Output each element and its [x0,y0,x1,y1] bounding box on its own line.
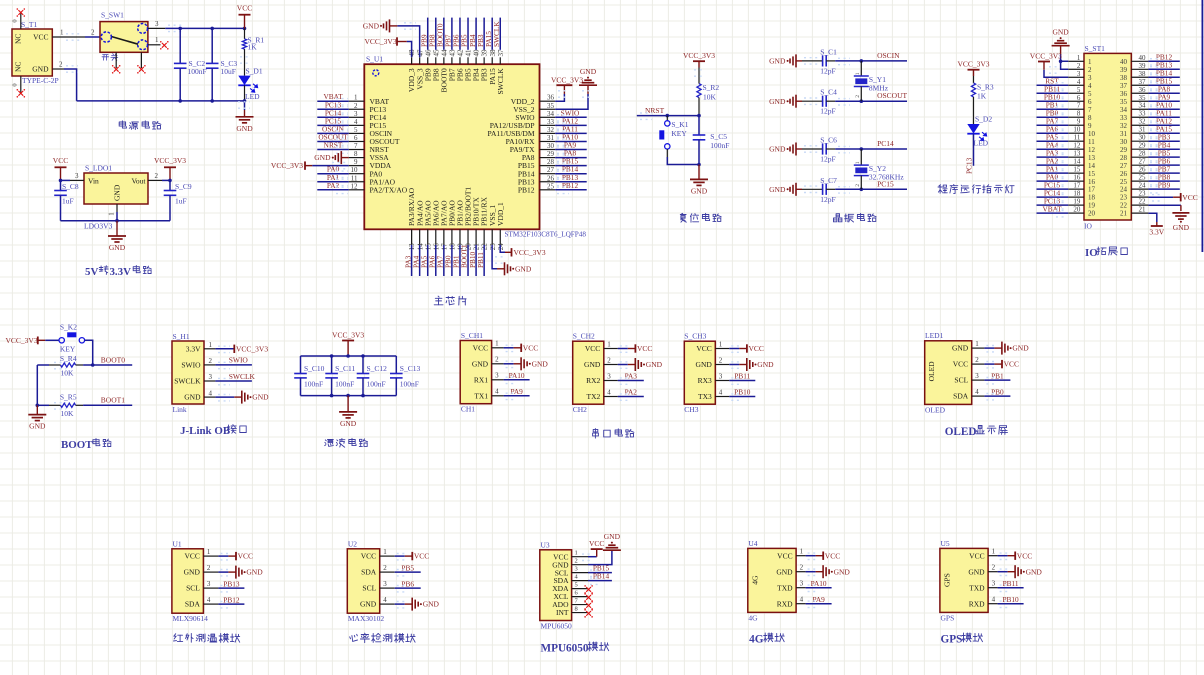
svg-text:PB5: PB5 [401,563,414,572]
pin 13 of S_ST1 (left) [1068,150,1095,162]
pin 25 PB12 of U1 [518,182,555,194]
junction at C2 bottom [178,99,182,103]
pin 2 GND of U4 [776,564,805,577]
svg-text:OLED: OLED [927,361,936,382]
svg-text:13: 13 [1088,154,1096,162]
power flag VCC at S_CH3 pin 1 [729,344,764,353]
svg-text:SWIO: SWIO [181,361,201,370]
pin 7 of S_ST1 (left) [1068,102,1092,114]
svg-text:GND: GND [184,393,201,402]
net label PB0 at LED1 pin 4 [984,387,1010,400]
pin 2 PC13 of U1 [349,102,387,114]
bottom rail wire of power circuit [77,100,245,102]
header S_ST1 IO expansion [1084,44,1131,231]
resistor S_R1 1K [240,28,264,75]
net label PB6 at U1 pin 42 [452,18,461,50]
pin 1 VCC of S_CH3 [696,340,729,353]
capacitor S_C12 100nF [357,356,387,396]
svg-text:LED: LED [245,92,260,101]
pin 2 GND of S_CH3 [696,356,730,369]
svg-text:4: 4 [209,389,213,397]
pin 1 VCC of U1 [184,548,218,561]
junction bottom of S_C12 [361,394,365,398]
pin 10 PA0 of U1 [349,166,383,178]
svg-text:VCC: VCC [237,4,252,13]
net label PC14 at S_ST1 pin 18 [1037,188,1069,201]
net label PA10 at U4 pin 3 [806,579,832,592]
svg-text:31: 31 [1120,130,1128,138]
net label PB14 at U3 pin 4 [588,572,612,585]
svg-text:MPU6050: MPU6050 [541,643,589,655]
net label PB6 at S_ST1 pin 27 [1148,156,1179,169]
pin 31 PA10/RX of U1 [506,134,556,146]
svg-text:S_K2: S_K2 [60,323,77,332]
svg-text:VCC_3V3: VCC_3V3 [683,51,715,60]
svg-text:GND: GND [360,600,377,609]
svg-text:VCC_3V3: VCC_3V3 [514,248,546,257]
svg-text:2: 2 [855,184,861,187]
svg-text:PB12: PB12 [518,185,535,194]
pin 34 of S_ST1 (right) [1120,102,1148,114]
svg-text:4: 4 [354,118,358,126]
svg-text:36: 36 [1120,90,1128,98]
svg-text:4G: 4G [750,575,759,585]
pin 25 of S_ST1 (right) [1120,174,1148,186]
pin 9 VDDA of U1 [349,158,392,170]
net label OSCOUT at U1 pin 6 [317,132,349,145]
pin 3 of S_SW1 [148,20,165,29]
capacitor S_C4 12pF with GND and net OSCOUT [769,88,907,116]
ground GND of power circuit [236,101,254,133]
pin 4 RXD of U5 [969,596,998,609]
pin 11 of S_ST1 (left) [1068,134,1095,146]
net label PA3 at S_CH2 pin 3 [618,372,644,385]
pin 10 of S_ST1 (left) [1068,126,1095,138]
net label PB10 at U1 pin 21 [468,245,477,276]
svg-text:SCL: SCL [954,376,968,385]
pin 0 top of S_T1 (no connect) [12,8,26,29]
pin 1 VCC of U3 [553,550,588,562]
net label PB9 at U1 pin 46 [419,18,428,50]
net label BOOT0 at U1 pin 44 [436,18,445,50]
net label PA3 at U1 pin 13 [403,245,412,276]
pin 4 TX3 of S_CH3 [698,388,729,401]
svg-text:11: 11 [1088,138,1095,146]
net label PC14 at U1 pin 3 [317,108,349,121]
svg-text:38: 38 [1139,70,1147,78]
caption 主芯片 [434,296,466,305]
resistor S_R3 1K [971,76,994,124]
module U3 MPU6050 body [540,540,572,630]
net label SWCLK at U1 pin 37 [492,18,501,50]
pin 24 of S_ST1 (right) [1120,182,1148,194]
push button S_K1 KEY [659,116,688,157]
svg-text:S_D2: S_D2 [975,115,992,124]
svg-text:22: 22 [1120,202,1128,210]
net label PA0 at S_ST1 pin 16 [1037,172,1069,185]
capacitor S_C11 100nF [325,356,355,396]
svg-text:2: 2 [155,172,159,180]
junction OSCIN at crystal [860,59,864,63]
net label PA4 at S_ST1 pin 12 [1037,140,1069,153]
net label PB5 at S_ST1 pin 28 [1148,148,1179,161]
pin 30 PA9/TX of U1 [510,142,555,154]
pin 4 TX2 of S_CH2 [587,388,618,401]
svg-text:2: 2 [800,564,804,572]
svg-text:VCC: VCC [361,552,376,561]
capacitor S_C13 100nF [390,356,420,396]
caption 电源电路 [119,121,161,130]
LED S_D1 [238,67,263,102]
pin 4 of S_H1 [204,389,215,397]
pin 47 VSS_3 of U1 (top) [415,49,424,90]
junction NRST at key [666,114,670,118]
svg-text:7: 7 [354,142,358,150]
net label PB1 at LED1 pin 3 [984,371,1010,384]
svg-text:1: 1 [575,550,578,557]
svg-text:10K: 10K [61,409,75,418]
svg-text:5: 5 [1088,90,1092,98]
svg-text:4: 4 [607,388,611,396]
svg-text:10K: 10K [61,369,75,378]
net label PA6 at U1 pin 16 [427,245,436,276]
junction at VCC/R1 [243,27,247,31]
svg-text:3: 3 [155,20,159,28]
pin 44 BOOT0 of U1 (top) [439,49,448,92]
svg-text:25: 25 [547,182,555,190]
pin 22 of S_ST1 (right) [1120,198,1148,210]
module U1 body [172,540,208,624]
ground GND of filter [339,396,357,428]
net label PB13 at U1 pin 26 [555,173,587,186]
power flag VCC at U3 pin 1 [582,539,604,561]
svg-text:23: 23 [1139,190,1147,198]
svg-text:SCL: SCL [186,584,200,593]
svg-text:37: 37 [1120,82,1128,90]
wire sheet edge right [1201,0,1203,252]
no-connect at U3 pin 7 [584,601,593,610]
pin 26 of S_ST1 (right) [1120,166,1148,178]
svg-text:2: 2 [1088,66,1092,74]
pin 33 of S_ST1 (right) [1120,110,1148,122]
svg-text:31: 31 [547,134,555,142]
svg-text:45: 45 [432,49,440,57]
svg-text:CH2: CH2 [573,405,587,414]
svg-text:1: 1 [975,340,979,348]
svg-text:TXD: TXD [969,583,985,592]
svg-text:SWCLK: SWCLK [229,372,256,381]
svg-text:GND: GND [472,359,489,368]
caption 心率检测模块 [350,633,415,643]
svg-text:4: 4 [495,388,499,396]
svg-text:S_CH1: S_CH1 [461,331,483,340]
svg-text:VCC: VCC [585,344,600,353]
svg-text:0: 0 [12,83,19,86]
capacitor S_C3 10uF [206,28,238,101]
svg-text:8: 8 [575,606,578,613]
svg-text:U1: U1 [173,540,182,549]
net label SWIO at S_H1 pin 2 [215,356,252,369]
pin 5 of S_ST1 (left) [1068,86,1092,98]
svg-text:VCC: VCC [777,551,792,560]
svg-text:2: 2 [607,356,611,364]
svg-text:S_C12: S_C12 [367,364,388,373]
svg-text:VCC: VCC [1017,551,1032,560]
capacitor S_C6 12pF with GND and net PC14 [769,136,907,164]
pin 37 SWCLK of U1 (top) [496,49,505,95]
pin 2 VCC of LED1 [953,356,985,369]
svg-text:2: 2 [383,564,387,572]
ground GND at U4 pin 2 [806,565,851,578]
svg-text:GPS: GPS [942,573,951,587]
svg-text:4: 4 [1077,78,1081,86]
pin 15 of S_ST1 (left) [1068,166,1095,178]
svg-text:U5: U5 [941,539,950,548]
svg-text:33: 33 [1139,110,1147,118]
net label BOOT1 at U1 pin 20 [460,244,469,276]
svg-text:3: 3 [800,580,804,588]
svg-text:39: 39 [1120,66,1128,74]
svg-text:12: 12 [351,182,359,190]
net label PB14 at U1 pin 27 [555,165,587,178]
power flag VCC_3V3 at U1 pin 48 VDD_3 [365,37,412,57]
svg-text:OSCOUT: OSCOUT [877,91,907,100]
svg-text:34: 34 [1120,106,1128,114]
svg-text:15: 15 [1088,170,1096,178]
svg-text:12: 12 [1088,146,1096,154]
svg-text:4: 4 [1088,82,1092,90]
svg-text:PB14: PB14 [593,572,610,581]
svg-text:GND: GND [515,264,532,273]
svg-text:3: 3 [209,373,213,381]
ground GND at U1 pin 23 VSS_1 [492,245,532,275]
svg-text:NC: NC [14,62,23,72]
svg-text:1: 1 [800,548,804,556]
svg-text:8MHz: 8MHz [869,84,889,93]
pin 18 PB0/AO of U1 (bottom) [448,200,457,251]
svg-text:PA9: PA9 [812,595,825,604]
svg-text:LDO3V3: LDO3V3 [84,222,113,231]
svg-text:5: 5 [354,126,358,134]
net label BOOT0 [54,355,132,369]
net label PA2 at S_CH2 pin 4 [618,388,644,401]
svg-text:3.3V: 3.3V [186,344,201,353]
pin 29 of S_ST1 (right) [1120,142,1148,154]
caption MPU6050模块 [541,642,609,655]
svg-text:38: 38 [489,49,497,57]
pin 18 of S_ST1 (left) [1068,190,1095,202]
svg-text:PB11: PB11 [1003,579,1019,588]
pin 22 PB11/RX of U1 (bottom) [480,197,489,251]
svg-text:28: 28 [547,158,555,166]
svg-text:GND: GND [580,67,597,76]
svg-text:PA10: PA10 [509,371,525,380]
svg-text:MAX30102: MAX30102 [348,614,385,623]
svg-text:32.768KHz: 32.768KHz [869,173,904,182]
pin 32 PA11/USB/DM of U1 [488,126,556,138]
svg-text:17: 17 [1088,186,1096,194]
svg-text:14: 14 [1073,158,1081,166]
svg-text:VCC_3V3: VCC_3V3 [154,156,186,165]
module S_CH2 body [573,332,604,414]
svg-text:VCC: VCC [473,343,488,352]
svg-text:25: 25 [1139,174,1147,182]
crystal S_Y2 32.768KHz [854,149,905,189]
capacitor S_C5 100nF [693,116,730,165]
net label PC15 at S_ST1 pin 17 [1037,180,1069,193]
pin 43 PB7 of U1 (top) [448,49,457,81]
pin 35 VSS_2 of U1 [513,102,555,114]
wire LDO ground rail [61,220,171,222]
net label PA5 at U1 pin 15 [419,245,428,276]
svg-text:Vout: Vout [131,176,146,185]
svg-text:GND: GND [32,65,49,74]
ground GND at U1 pin 35 [555,67,597,109]
svg-text:NRST: NRST [324,141,343,150]
bottom stubs of S_SW1 (no connect) [112,52,146,73]
svg-text:100nF: 100nF [304,380,323,389]
svg-text:9: 9 [1088,122,1092,130]
caption BOOT电路 [61,439,111,452]
svg-text:17: 17 [1073,182,1081,190]
svg-text:VCC: VCC [953,360,968,369]
pin 1 VCC of S_CH1 [473,340,504,353]
svg-text:VCC: VCC [969,551,984,560]
svg-text:12pF: 12pF [820,195,835,204]
svg-text:VCC: VCC [637,344,652,353]
wire key bottom to ground rail [667,157,699,165]
pin 1 VBAT of U1 [349,94,390,106]
svg-text:SDA: SDA [185,600,201,609]
pin 17 PA7/AO of U1 (bottom) [439,200,448,250]
svg-text:32: 32 [1120,122,1128,130]
pin 4 SDA of LED1 [953,388,984,401]
svg-text:30: 30 [1139,134,1147,142]
svg-text:VCC: VCC [589,539,604,548]
wire VCC rail from switch pin3 [165,25,244,31]
svg-text:28: 28 [1120,154,1128,162]
junction BOOT0 [91,363,95,367]
caption J-Link OB接口 [180,425,246,438]
svg-text:GPS: GPS [941,613,955,622]
svg-text:2: 2 [91,29,95,37]
svg-text:5V: 5V [85,266,98,278]
net label PB11 at S_ST1 pin 5 [1037,84,1069,97]
pin 4 PC15 of U1 [349,118,387,130]
svg-text:32: 32 [1139,118,1147,126]
svg-text:26: 26 [547,174,555,182]
svg-text:GND: GND [340,419,357,428]
svg-text:3: 3 [207,580,211,588]
svg-text:PB1: PB1 [991,371,1004,380]
caption GPS模块 [941,633,983,646]
net label SWIO at U1 pin 34 [555,108,587,121]
svg-text:SDA: SDA [361,568,377,577]
svg-text:3: 3 [1088,74,1092,82]
net label PA9 at S_ST1 pin 35 [1148,92,1179,105]
pin 3 TXD of U5 [969,580,997,593]
svg-text:SWCLK: SWCLK [496,68,505,95]
svg-text:35: 35 [1120,98,1128,106]
svg-text:4G: 4G [749,634,764,646]
svg-text:1: 1 [354,94,358,102]
svg-text:20: 20 [1088,210,1096,218]
svg-text:27: 27 [1120,162,1128,170]
svg-text:S_C5: S_C5 [710,132,727,141]
svg-text:GND: GND [246,568,263,577]
svg-text:GND: GND [834,567,851,576]
svg-text:SDA: SDA [953,392,969,401]
pin 39 PB3 of U1 (top) [480,49,489,81]
svg-text:3: 3 [495,372,499,380]
svg-text:PB12: PB12 [562,181,579,190]
svg-text:STM32F103C8T6_LQFP48: STM32F103C8T6_LQFP48 [505,231,587,239]
svg-text:31: 31 [1139,126,1147,134]
svg-text:9: 9 [1077,118,1081,126]
svg-text:VCC: VCC [749,344,764,353]
svg-text:0: 0 [12,19,19,22]
svg-text:VCC_3V3: VCC_3V3 [271,161,303,170]
svg-text:J-Link OB: J-Link OB [180,425,230,437]
svg-text:U3: U3 [541,540,550,549]
svg-text:1: 1 [495,340,499,348]
ground GND at U3 pin 2 (inverted symbol above) [588,532,621,564]
module LED1 body [925,331,972,414]
pin 1 of S_ST1 (left) [1068,54,1092,66]
svg-text:14: 14 [1088,162,1096,170]
net label PB13 at S_ST1 pin 39 [1148,60,1179,73]
capacitor S_C2 100nF [174,28,207,101]
svg-text:100nF: 100nF [400,380,419,389]
svg-text:1: 1 [207,548,211,556]
svg-text:VCC_3V3: VCC_3V3 [332,331,364,340]
svg-text:VBAT: VBAT [1042,204,1062,213]
svg-text:GND: GND [776,567,793,576]
pin 23 of S_ST1 (right) [1120,190,1148,202]
svg-text:GND: GND [1173,223,1190,232]
pin 35 of S_ST1 (right) [1120,94,1148,106]
power flag VCC_3V3 at S_ST1 pin 3 [1030,52,1069,78]
power flag VCC (LDO input) [53,156,68,180]
pin 8 VSSA of U1 [349,150,389,162]
svg-text:39: 39 [481,49,489,57]
svg-text:100nF: 100nF [188,67,207,76]
pin 16 PA6/AO of U1 (bottom) [431,200,440,250]
svg-text:GND: GND [236,124,253,133]
svg-text:KEY: KEY [671,129,687,138]
pin 40 of S_ST1 (right) [1120,54,1148,66]
svg-text:VCC: VCC [238,552,253,561]
svg-text:Vin: Vin [88,176,99,185]
svg-text:RX3: RX3 [698,376,712,385]
svg-text:NC: NC [14,34,23,44]
svg-text:VCC_3V3: VCC_3V3 [551,76,583,85]
wire filter top rail [301,355,397,357]
net label PB9 at S_ST1 pin 24 [1148,180,1179,193]
svg-text:VCC: VCC [414,552,429,561]
svg-text:U2: U2 [348,540,357,549]
svg-text:TXD: TXD [777,583,793,592]
svg-text:5: 5 [1077,86,1081,94]
wire S_T1 pin1 to S_SW1 pin2 [66,29,100,41]
svg-text:GND: GND [952,344,969,353]
pin 3 of S_H1 [204,373,215,381]
svg-text:36: 36 [547,94,555,102]
svg-text:PB10: PB10 [1002,595,1019,604]
push button S_K2 KEY [45,323,84,354]
svg-text:13: 13 [1073,150,1081,158]
svg-text:S_LDO1: S_LDO1 [85,164,112,173]
